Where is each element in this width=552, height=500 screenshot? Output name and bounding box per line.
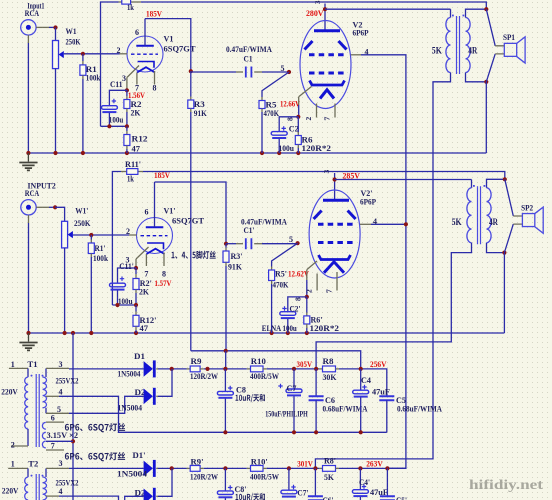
- resistor R3: [188, 71, 207, 351]
- svg-text:3.15V ×2: 3.15V ×2: [47, 430, 79, 440]
- capacitor C11 100u (cathode bypass V1): [101, 79, 127, 126]
- svg-text:400R/5W: 400R/5W: [250, 472, 279, 481]
- svg-text:R1': R1': [95, 243, 106, 253]
- pin 3 lead (cathode) V1': [136, 247, 149, 259]
- junction: V2' cathode node: [305, 295, 309, 299]
- svg-text:5: 5: [57, 405, 61, 414]
- wire: OPT2 secondary bottom return: [487, 243, 505, 253]
- wire: supply ground bus row1 (from T1 center tap): [59, 396, 387, 432]
- wire: D1' cathode to R9': [156, 467, 158, 469]
- wire: cathode feedback node ch1: [101, 125, 127, 127]
- winding: T2 HV secondary 255Vx2: [43, 477, 47, 500]
- svg-text:220V: 220V: [1, 386, 18, 396]
- pin: RCA1 center conductor: [36, 26, 49, 28]
- pin 4 lead T2 (HV center tap): [46, 495, 59, 497]
- triode V1' 6SQ7GT: [126, 182, 205, 279]
- junction: C7 tap (305V): [292, 367, 296, 371]
- pin 8 lead (cathode) V2: [299, 87, 312, 97]
- wire: V2' plate to OPT2 primary: [335, 179, 472, 181]
- svg-text:91K: 91K: [194, 108, 207, 118]
- pin 4 lead T1 (HV center tap): [46, 395, 59, 397]
- junction: ground bus dots ch2: [26, 331, 30, 335]
- output transformer OPT1 (5K:4R): [315, 7, 488, 468]
- svg-text:W1: W1: [66, 26, 77, 36]
- svg-text:R9: R9: [191, 356, 202, 366]
- diode D1' 1N5004: [117, 450, 156, 478]
- svg-text:120R/2W: 120R/2W: [190, 372, 218, 381]
- junction: spare dot on C8 node: [205, 367, 209, 371]
- svg-text:5K: 5K: [324, 472, 334, 482]
- svg-text:5K: 5K: [452, 217, 462, 227]
- capacitor C6' 0.68uF: [308, 468, 334, 500]
- wire: RCA1 to W1 top: [49, 26, 56, 28]
- diode D2 1N5004: [118, 387, 156, 413]
- junction: V1 cathode node: [125, 88, 129, 92]
- capacitor C7' 150uF: [281, 468, 309, 497]
- svg-text:C2': C2': [290, 304, 301, 314]
- svg-text:C7: C7: [287, 383, 298, 393]
- wire: R10' to R8' (301V node): [267, 467, 319, 469]
- svg-text:305V: 305V: [297, 359, 313, 369]
- junction: OPT1 secondary hot: [484, 7, 488, 11]
- svg-text:R5': R5': [275, 269, 287, 279]
- wire: RCA2 ground drop: [28, 215, 30, 223]
- winding: OPT2 secondary 4R: [487, 188, 492, 243]
- svg-text:C8': C8': [235, 484, 247, 494]
- svg-text:C5: C5: [396, 395, 406, 405]
- svg-text:1.56V: 1.56V: [128, 90, 146, 100]
- winding: OPT2 primary 5K: [467, 188, 472, 243]
- wire: NFB bus channel 1 (OPT1 secondary to cathode network): [101, 2, 119, 126]
- wire: R8 to 256V node and C5: [339, 369, 387, 396]
- resistor R9 120R/2W: [187, 356, 219, 381]
- pin 2 heater stub V2: [316, 104, 318, 118]
- svg-text:V1: V1: [164, 34, 174, 44]
- svg-text:ELNA 100u: ELNA 100u: [262, 323, 297, 333]
- svg-text:R11': R11': [125, 159, 141, 169]
- svg-text:12.66V: 12.66V: [280, 99, 301, 109]
- junction: C8 tap: [223, 367, 227, 371]
- pin 3 lead (cathode) V1: [127, 66, 139, 78]
- junction: screen tap ch2: [404, 222, 408, 226]
- svg-text:4: 4: [59, 387, 63, 396]
- capacitor C5' 0.68uF: [380, 468, 407, 500]
- resistor R11p pin stubs: [121, 171, 127, 173]
- capacitor C4' 47uF: [352, 468, 388, 500]
- resistor R12' 47: [133, 305, 157, 333]
- junction: rectifier output ch2: [170, 466, 174, 470]
- wire: OPT2 secondary top: [487, 179, 505, 188]
- svg-text:280V: 280V: [306, 8, 324, 18]
- wire: R3p column joint: [225, 351, 227, 369]
- label heater net 6P6/6SQ7 (lower): [65, 452, 125, 461]
- svg-text:5: 5: [289, 235, 293, 244]
- potentiometer W1': [55, 206, 91, 334]
- svg-text:400R/5W: 400R/5W: [250, 372, 279, 381]
- svg-text:C6: C6: [325, 395, 335, 405]
- svg-text:V1': V1': [164, 206, 176, 216]
- core T1: [36, 374, 39, 447]
- svg-text:hifidiy.net: hifidiy.net: [469, 477, 544, 492]
- capacitor C2 100u (cathode bypass): [271, 115, 300, 153]
- pin 8 lead (cathode) V2': [307, 261, 317, 270]
- svg-text:C5': C5': [396, 495, 407, 500]
- junction: C7' tap (301V): [287, 466, 291, 470]
- svg-text:0.68uF/WIMA: 0.68uF/WIMA: [397, 405, 442, 414]
- resistor R9' 120R/2W: [187, 457, 219, 482]
- junction: heater ground tap T1: [71, 439, 75, 443]
- svg-text:8: 8: [285, 117, 294, 121]
- svg-text:W1': W1': [75, 206, 88, 216]
- svg-text:255VX2: 255VX2: [56, 377, 79, 386]
- junction: rectifier output ch1: [170, 367, 174, 371]
- junction: plate/C1 node ch1: [189, 69, 193, 73]
- wire: RCA2 to W1p top: [49, 206, 55, 208]
- pin 3 stub (plate) V2': [334, 173, 336, 200]
- svg-text:3: 3: [313, 0, 322, 4]
- resistor R6' 120R*2: [304, 297, 339, 333]
- core T2: [36, 474, 39, 500]
- svg-text:5: 5: [281, 64, 285, 73]
- pin 2 heater stub V2': [316, 274, 318, 291]
- capacitor C2' ELNA 100u: [262, 297, 307, 333]
- svg-text:4R: 4R: [489, 217, 498, 227]
- potentiometer W1: [53, 26, 81, 153]
- svg-text:C1: C1: [244, 54, 253, 64]
- triode V1 6SQ7GT: [117, 19, 196, 93]
- svg-text:250K: 250K: [74, 218, 91, 228]
- svg-text:R9': R9': [191, 457, 204, 467]
- svg-text:3: 3: [322, 170, 331, 174]
- ground symbol ch1: [27, 153, 29, 162]
- svg-text:6: 6: [135, 28, 139, 37]
- wire: T2 pin3 to D1p anode: [69, 467, 144, 469]
- svg-text:1: 1: [11, 459, 15, 468]
- svg-text:120R*2: 120R*2: [310, 323, 340, 333]
- capacitor C8 10uF: [217, 369, 265, 432]
- svg-text:47: 47: [140, 323, 149, 333]
- svg-text:D1: D1: [134, 351, 145, 361]
- svg-text:1k: 1k: [127, 3, 134, 12]
- capacitor C1 0.47uF/WIMA: [191, 45, 289, 78]
- svg-text:C4': C4': [359, 477, 370, 487]
- svg-text:T2: T2: [28, 458, 38, 468]
- wire: D2 cathode join: [156, 395, 158, 397]
- svg-text:1N5004: 1N5004: [118, 370, 141, 379]
- svg-text:185V: 185V: [154, 170, 171, 180]
- junction: V2 cathode node: [296, 115, 300, 119]
- svg-text:C6': C6': [323, 495, 334, 500]
- junction: wiper/R1' node: [89, 233, 93, 237]
- pin 2 stub (grid) V1: [120, 53, 128, 55]
- ground bus channel 2: [29, 332, 505, 334]
- resistor R2' 2K: [133, 268, 152, 305]
- core OPT2: [478, 186, 481, 244]
- svg-text:100k: 100k: [86, 73, 101, 83]
- wire: R9' to R10': [204, 467, 247, 469]
- pin 4 lead (screen grid) V2: [351, 54, 361, 56]
- svg-text:4R: 4R: [468, 46, 477, 56]
- pin 2 lead T1: [11, 445, 28, 447]
- svg-text:R12: R12: [132, 134, 148, 144]
- pin 6 stub (plate) V1: [144, 19, 146, 46]
- svg-text:470K: 470K: [264, 108, 280, 118]
- capacitor C11' 100u: [110, 261, 137, 306]
- wire: preamp HT rail (256V to R3/R3p): [191, 351, 361, 369]
- pin 7 lead T1 (heater): [46, 449, 64, 451]
- svg-text:263V: 263V: [366, 459, 383, 469]
- capacitor C5 0.68uF/WIMA: [379, 395, 442, 433]
- junction: R3p HT tap: [224, 349, 228, 353]
- junction: C6' tap / OPT1 B+ (301V): [313, 466, 317, 470]
- svg-text:T1: T1: [28, 359, 38, 369]
- junction: input node ch2: [53, 205, 57, 209]
- pin 1 lead T1: [9, 367, 28, 369]
- wire: T1 pin5 to D2 anode: [69, 396, 144, 413]
- svg-text:2: 2: [305, 289, 314, 293]
- pin 2 stub (grid) V1': [129, 234, 137, 236]
- output transformer OPT2 (5K:4R): [316, 177, 507, 369]
- junction: ground bus row1 dots: [223, 430, 227, 434]
- svg-text:91K: 91K: [228, 262, 242, 272]
- wire: heater winding ground drop (x=73): [72, 333, 74, 500]
- svg-text:2K: 2K: [139, 287, 149, 297]
- svg-text:C4: C4: [361, 375, 372, 385]
- svg-text:150uF/PHILIPH: 150uF/PHILIPH: [265, 410, 308, 419]
- junction: C6 tap / OPT2 B+ (305V): [314, 367, 318, 371]
- svg-text:1k: 1k: [127, 175, 134, 184]
- svg-text:7: 7: [51, 442, 55, 451]
- svg-text:1.57V: 1.57V: [155, 278, 173, 288]
- svg-text:3: 3: [59, 459, 63, 468]
- svg-text:220V: 220V: [2, 485, 19, 495]
- svg-text:47uF: 47uF: [372, 387, 390, 396]
- svg-text:R8': R8': [324, 455, 336, 465]
- resistor R10 400R/5W: [247, 356, 279, 381]
- wire: D2' cathode join: [156, 495, 158, 497]
- wire: heater center tap line: [46, 440, 73, 442]
- resistor R8' 5K: [319, 455, 339, 482]
- capacitor C6 0.68uF/WIMA: [309, 369, 368, 432]
- svg-text:R3': R3': [231, 251, 243, 261]
- winding: OPT1 primary 5K: [446, 18, 451, 73]
- svg-text:7: 7: [323, 117, 332, 121]
- svg-text:2: 2: [117, 46, 121, 55]
- svg-text:3: 3: [59, 360, 63, 369]
- speaker SP2: [504, 179, 543, 252]
- svg-text:1N5004: 1N5004: [118, 404, 143, 413]
- svg-text:R10': R10': [251, 457, 268, 467]
- wire: NFB bus channel 2: [112, 172, 121, 306]
- winding: OPT1 secondary 4R: [466, 18, 471, 73]
- junction: V2' plate node: [333, 177, 337, 181]
- svg-text:SP1: SP1: [503, 32, 515, 42]
- svg-text:RCA: RCA: [25, 188, 40, 198]
- svg-text:30K: 30K: [323, 372, 337, 382]
- svg-text:256V: 256V: [370, 359, 387, 369]
- wire: OPT1 primary bottom to B+ (301V row2): [315, 73, 450, 469]
- resistor R5: [259, 72, 289, 153]
- resistor R8 30K: [319, 356, 339, 382]
- junction: plate/C1' node ch2: [224, 242, 228, 246]
- junction: C11/R2 bottom node: [107, 124, 111, 128]
- capacitor C8' 10uF: [217, 468, 265, 500]
- svg-text:7: 7: [325, 289, 334, 293]
- junction: 256V node (C4 tap): [359, 367, 363, 371]
- svg-text:R10: R10: [251, 356, 266, 366]
- phase dots OPT2: [473, 185, 475, 187]
- winding: T1 HV secondary 255Vx2: [43, 377, 47, 408]
- pin 3 lead T1 (HV top): [45, 368, 47, 377]
- junction: V2 plate node: [323, 7, 327, 11]
- pin: RCA2 center conductor: [36, 206, 49, 208]
- pentode V2' 6P6P: [294, 170, 408, 302]
- junction: input node ch1: [53, 25, 57, 29]
- svg-text:6: 6: [51, 413, 55, 422]
- junction: V2 grid node: [287, 70, 291, 74]
- ground symbol ch2: [28, 333, 30, 342]
- pin 1 lead T2: [8, 467, 28, 469]
- winding: T1 primary 220V: [27, 368, 29, 377]
- wire: W1' wiper to V1' grid: [73, 234, 129, 236]
- pin 3 stub (plate) V2: [324, 4, 326, 30]
- junction: wiper/R1 node: [81, 52, 85, 56]
- resistor R1: [80, 54, 101, 153]
- pin 8 heater stub V1: [154, 71, 156, 85]
- wire: V2 screen supply line: [361, 55, 406, 469]
- resistor R6 120R*2 (cathode bias V2): [295, 117, 331, 153]
- wire: cathode feedback node ch2: [112, 304, 136, 306]
- junction: V1' cathode node: [134, 266, 138, 270]
- wire: R10 to R8 (305V node): [267, 368, 319, 370]
- diode D1 1N5004: [118, 351, 156, 378]
- resistor R3': [223, 244, 243, 351]
- pin: OPT2 primary top lead: [471, 180, 473, 188]
- svg-text:250K: 250K: [66, 37, 81, 47]
- junction: screens/C5' tap: [385, 466, 389, 470]
- svg-text:6P6P: 6P6P: [360, 197, 376, 207]
- junction: V2' grid node: [296, 241, 300, 245]
- resistor R11 (1k) in NFB bus: [122, 0, 131, 4]
- phase dots OPT1: [452, 15, 454, 17]
- resistor R2 2K (cathode bias V1): [124, 90, 142, 126]
- pin 7 heater stub V1: [136, 73, 138, 85]
- capacitor C4 47uF: [353, 369, 390, 432]
- resistor R10' 400R/5W: [247, 457, 279, 482]
- wire: W1 wiper to V1 grid: [64, 53, 120, 55]
- pin: OPT1 primary top lead: [450, 9, 452, 17]
- svg-text:C11': C11': [119, 261, 134, 271]
- pin 7 heater stub V1': [145, 254, 147, 266]
- wire: OPT1 secondary bottom return: [466, 73, 487, 82]
- winding: T1 heater windings 3.15Vx2: [42, 422, 45, 429]
- capacitor C7 150uF/PHILIPH: [265, 369, 308, 432]
- ground bus channel 1: [28, 152, 486, 154]
- svg-text:1N5004: 1N5004: [117, 469, 147, 478]
- wire: V1 plate node (185V): [145, 19, 191, 72]
- wire: OPT2 primary bottom to B+ (305V row1): [316, 243, 471, 369]
- svg-text:6: 6: [145, 208, 149, 217]
- junction: 263V node (C4' tap): [358, 466, 362, 470]
- wire: D1 cathode to R9: [156, 368, 158, 370]
- resistor R11 pin stubs: [119, 1, 123, 3]
- wire: OPT1 secondary top: [466, 9, 487, 17]
- speaker SP1: [486, 9, 525, 82]
- svg-text:47: 47: [132, 144, 141, 154]
- svg-text:RCA: RCA: [25, 8, 40, 18]
- capacitor C1' 0.47uF/WIMA: [226, 217, 298, 249]
- svg-text:SP2: SP2: [521, 202, 533, 212]
- junction: C8' tap: [223, 466, 227, 470]
- wire: V1' plate node (185V ch2): [155, 182, 227, 244]
- junction: C11'/R2' bottom node: [115, 303, 119, 307]
- pentode V2 6P6P: [285, 0, 368, 121]
- pin 7 heater stub V2': [336, 272, 338, 291]
- wire: R9 to R10 (C8 node): [204, 368, 247, 370]
- svg-text:3: 3: [122, 74, 126, 83]
- wire: SP2 leads: [505, 179, 514, 216]
- svg-text:2: 2: [11, 441, 15, 450]
- svg-text:C7': C7': [297, 487, 308, 497]
- wire: D2' anode from T2 pin5: [125, 496, 144, 500]
- pin 6 stub (plate) V1': [154, 182, 156, 227]
- svg-text:120R/2W: 120R/2W: [190, 472, 218, 481]
- pin 3 lead T2 (HV top): [45, 468, 47, 477]
- wire: R8' to 263V node and screens corner: [339, 467, 406, 469]
- pin 5 lead T1 (HV bottom): [45, 408, 47, 414]
- svg-text:2: 2: [304, 117, 313, 121]
- junction: ground bus dots ch1: [26, 151, 30, 155]
- svg-text:2K: 2K: [131, 108, 141, 118]
- junction: OPT2 secondary hot: [503, 177, 507, 181]
- svg-text:C8: C8: [236, 384, 246, 394]
- wire: RCA1 ground drop: [27, 35, 29, 43]
- svg-text:1: 1: [11, 360, 15, 369]
- resistor R12 47 (feedback divider): [124, 126, 148, 153]
- svg-text:100k: 100k: [93, 253, 108, 263]
- svg-text:C1': C1': [244, 225, 255, 235]
- transformer T1 (mains): [1, 359, 78, 451]
- svg-text:2: 2: [126, 227, 130, 236]
- pin 4 lead (screen) V2': [360, 223, 371, 225]
- diode D2' 1N5004: [135, 487, 156, 500]
- transformer T2 (mains): [2, 458, 119, 500]
- resistor R1': [88, 235, 108, 333]
- svg-text:D1': D1': [133, 450, 146, 460]
- svg-text:R8: R8: [323, 356, 334, 366]
- wire: V2 plate to OPT1 primary: [325, 8, 451, 10]
- svg-text:100u: 100u: [109, 115, 124, 125]
- svg-text:185V: 185V: [146, 8, 163, 18]
- wire: SP1 leads: [486, 9, 495, 46]
- svg-text:6P6P: 6P6P: [353, 28, 369, 38]
- pin 8 heater stub V1': [163, 253, 165, 267]
- svg-text:C2: C2: [289, 124, 299, 134]
- resistor R5': [269, 243, 298, 333]
- wire: T1 pin3 to D1 anode: [69, 368, 144, 370]
- phase dots T1: [31, 375, 33, 377]
- phase dots T2: [31, 475, 33, 477]
- svg-text:120R*2: 120R*2: [302, 143, 332, 153]
- svg-text:4: 4: [59, 487, 63, 496]
- svg-text:5K: 5K: [432, 46, 442, 56]
- pin 7 heater stub V2: [334, 104, 336, 118]
- svg-text:4: 4: [373, 217, 377, 226]
- resistor R11' 1k in NFB bus ch2: [127, 169, 138, 175]
- label heater net 6P6/6SQ7 (upper): [65, 423, 125, 432]
- core OPT1: [457, 16, 460, 74]
- label heater note 1,4,5: [172, 251, 216, 259]
